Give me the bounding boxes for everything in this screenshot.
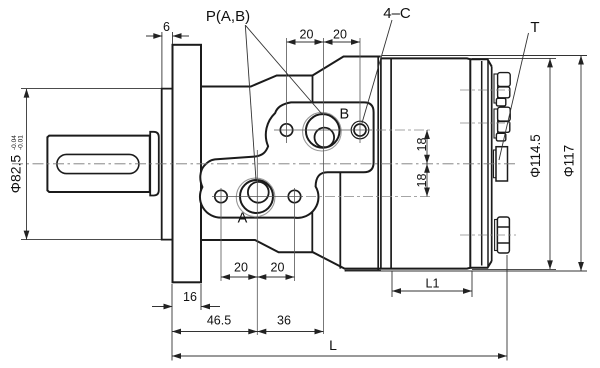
port A boss ring — [236, 178, 275, 217]
bottom plug — [495, 217, 510, 253]
dim 6 — [146, 32, 189, 88]
plug pair 2 — [494, 109, 498, 138]
end cap step line — [481, 61, 483, 266]
plug pair 1 — [494, 74, 498, 103]
vertical ext line hole B left — [286, 38, 288, 143]
bolt hole B left — [280, 124, 292, 136]
port block bottom edge — [345, 270, 381, 272]
bottom plug centerline — [460, 234, 516, 236]
vertical ext hole A left — [220, 188, 222, 281]
port B outer — [306, 114, 340, 148]
body bottom profile — [201, 240, 492, 269]
svg-text:20: 20 — [300, 28, 314, 42]
port block right edge double line — [377, 57, 379, 271]
rear cylinder ring line — [390, 58, 392, 268]
svg-text:20: 20 — [234, 261, 248, 275]
svg-text:6: 6 — [163, 20, 170, 34]
dim L1 — [392, 271, 472, 297]
dim phi82.5 — [21, 89, 161, 240]
dim 18 18 — [426, 130, 428, 197]
svg-text:4–C: 4–C — [383, 5, 411, 22]
svg-text:L1: L1 — [426, 277, 440, 291]
T drain port boss — [494, 150, 497, 178]
dim phi117 — [346, 56, 587, 272]
B row horizontal centerline — [274, 129, 372, 131]
vertical ext line hole B right — [359, 38, 361, 143]
dim L — [172, 255, 507, 361]
svg-text:Φ114.5: Φ114.5 — [528, 134, 543, 178]
svg-text:Φ117: Φ117 — [562, 145, 577, 177]
dim 20 20 bottom — [221, 276, 295, 278]
dim 16 — [152, 284, 220, 310]
port face plate — [200, 102, 374, 217]
svg-text:46.5: 46.5 — [207, 314, 231, 328]
dim phi114.5 — [472, 58, 556, 269]
svg-text:18: 18 — [415, 138, 429, 152]
svg-text:20: 20 — [271, 261, 285, 275]
svg-text:Φ82.5: Φ82.5 — [8, 155, 24, 194]
A row horizontal centerline — [212, 196, 303, 198]
mounting flange — [173, 45, 202, 282]
svg-text:L: L — [329, 337, 337, 353]
svg-text:36: 36 — [277, 314, 291, 328]
bolt hole B right with c'bore — [351, 121, 369, 139]
bolt hole A left — [215, 190, 227, 202]
dim 46.5 and 36 — [172, 284, 324, 335]
shaft collar — [150, 132, 159, 196]
bolt hole A right — [288, 190, 300, 202]
svg-text:-0.04: -0.04 — [11, 135, 18, 150]
svg-text:A: A — [238, 211, 248, 227]
port A outer — [240, 180, 273, 213]
rear cylinder top edge — [381, 58, 492, 66]
svg-text:18: 18 — [415, 174, 429, 188]
section boundary behind plate upper — [312, 76, 314, 104]
shaft body — [47, 136, 149, 192]
dim 20 20 top — [287, 41, 361, 43]
svg-text:B: B — [339, 107, 349, 123]
svg-text:-0.01: -0.01 — [18, 135, 25, 150]
vertical line port B center — [323, 38, 325, 334]
svg-text:T: T — [530, 19, 539, 36]
body top profile — [201, 57, 381, 87]
section boundary behind plate lower — [311, 207, 313, 252]
plug pair 1 centerline — [460, 89, 514, 91]
section boundary at x=340 below plate — [339, 172, 341, 268]
keyway slot — [57, 154, 139, 173]
pilot spigot — [162, 89, 173, 240]
svg-text:16: 16 — [183, 290, 197, 304]
svg-text:20: 20 — [333, 28, 347, 42]
end cap double right face — [487, 61, 489, 266]
vertical line port A center — [256, 150, 258, 335]
port B inner — [315, 128, 335, 148]
plug pair 2 centerline — [460, 122, 514, 124]
rear cylinder right edge — [469, 58, 471, 268]
svg-text:P(A,B): P(A,B) — [206, 8, 250, 25]
vertical ext hole A right — [294, 188, 296, 281]
port B boss ring — [303, 112, 342, 151]
port A inner — [248, 182, 269, 203]
main horizontal centerline — [12, 163, 517, 165]
